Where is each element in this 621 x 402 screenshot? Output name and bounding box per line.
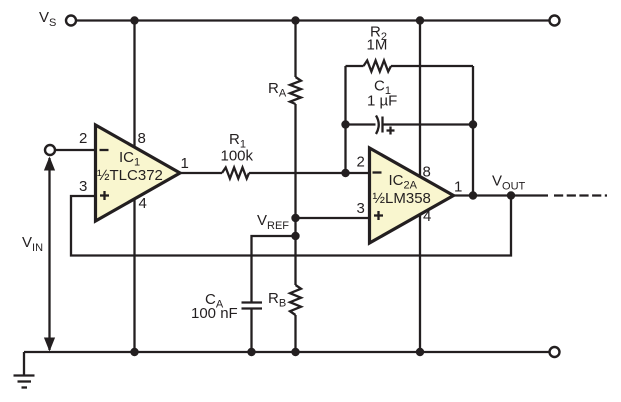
svg-text:3: 3: [79, 178, 87, 195]
wire pin2 input: [56, 149, 96, 151]
junction R1 to IC2A pin2: [341, 169, 349, 177]
svg-text:1M: 1M: [367, 37, 388, 54]
junction bottom at RB: [291, 348, 299, 356]
wire RA top: [294, 21, 296, 78]
svg-text:8: 8: [423, 164, 431, 181]
svg-text:100k: 100k: [221, 148, 254, 165]
wire IC2A supply vertical: [419, 21, 421, 353]
svg-text:1: 1: [454, 179, 462, 196]
resistor RA: [290, 77, 301, 104]
terminal bottom right: [550, 347, 560, 357]
wire VREF to CA: [252, 236, 296, 303]
svg-text:1 µF: 1 µF: [367, 93, 397, 110]
capacitor C1: [346, 123, 376, 125]
svg-text:2: 2: [357, 154, 365, 171]
svg-text:½LM358: ½LM358: [373, 190, 431, 207]
svg-text:2: 2: [79, 130, 87, 147]
svg-text:4: 4: [139, 195, 147, 212]
wire IC1 supply vertical: [133, 21, 135, 353]
junction bottom at IC1: [130, 348, 138, 356]
wire R2/C1 left branch: [344, 66, 346, 173]
op-amp IC2A: [370, 148, 454, 243]
svg-text:100 nF: 100 nF: [191, 305, 238, 322]
junction top rail at IC1: [130, 16, 138, 24]
capacitor CA: [242, 301, 263, 303]
resistor RB: [290, 285, 301, 315]
terminal top right: [550, 16, 560, 26]
junction output to C1: [469, 191, 477, 199]
wire RA to VREF: [294, 104, 296, 285]
svg-text:8: 8: [138, 130, 146, 147]
node VREF: [291, 214, 299, 222]
junction bottom at IC2A: [416, 348, 424, 356]
resistor R2: [346, 65, 364, 67]
wire RB bottom: [294, 315, 296, 352]
VIN arrow: [48, 158, 50, 350]
wire VOUT: [454, 194, 549, 196]
terminal VS: [66, 16, 76, 26]
wire top rail: [77, 19, 550, 21]
wire VOUT dashed: [554, 194, 607, 196]
svg-text:4: 4: [423, 208, 431, 225]
junction C1 right: [469, 120, 477, 128]
junction top rail at IC2A: [416, 16, 424, 24]
op-amp IC1: [96, 125, 181, 221]
svg-text:1: 1: [181, 155, 189, 172]
junction top rail at RA: [291, 16, 299, 24]
wire VREF to pin3: [296, 217, 370, 219]
terminal IC1 input: [45, 145, 55, 155]
wire R2/C1 right branch: [472, 66, 474, 196]
junction C1 left: [341, 120, 349, 128]
junction output to feedback: [507, 191, 515, 199]
ground: [23, 352, 25, 376]
wire pin3 to VOUT feedback: [71, 196, 511, 256]
resistor R1: [180, 172, 222, 174]
wire bottom rail: [24, 351, 549, 353]
svg-text:½TLC372: ½TLC372: [97, 167, 163, 184]
junction bottom at CA: [247, 348, 255, 356]
svg-text:3: 3: [357, 200, 365, 217]
